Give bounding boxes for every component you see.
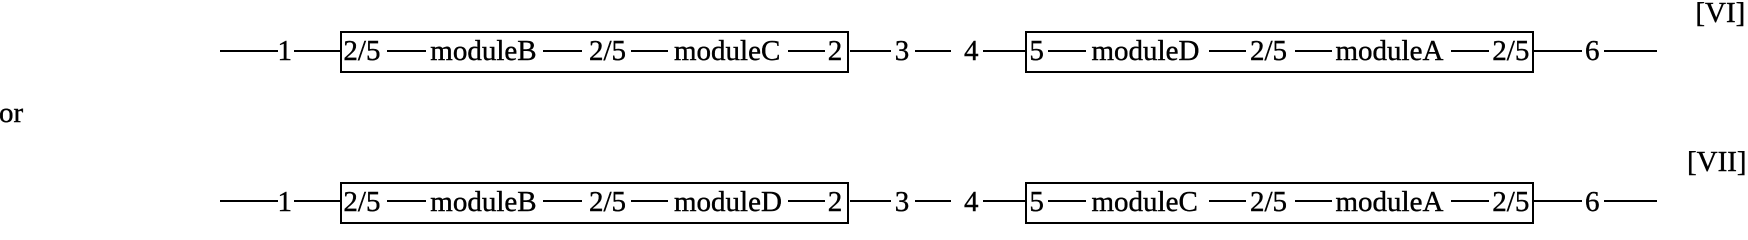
wire [1534, 200, 1582, 202]
link label 2/5 [1492, 188, 1529, 217]
node 4 [964, 188, 979, 217]
wire [788, 200, 825, 202]
wire [915, 50, 951, 52]
wire [1295, 50, 1332, 52]
module D block label [674, 188, 782, 217]
wire [915, 200, 951, 202]
wire [1048, 50, 1086, 52]
wire [1451, 50, 1489, 52]
link label 2/5 [343, 188, 380, 217]
module C block label [1092, 188, 1198, 217]
node 1 [278, 37, 293, 66]
wire [543, 50, 582, 52]
formula label [VI] [1695, 0, 1745, 28]
wire [1209, 50, 1247, 52]
link label 2/5 [343, 37, 380, 66]
wire [1295, 200, 1332, 202]
wire [1604, 50, 1658, 52]
wire [1209, 200, 1247, 202]
module B block label [430, 188, 536, 217]
wire [788, 50, 825, 52]
wire [1534, 50, 1582, 52]
first module box (formula VI) [340, 31, 849, 73]
connector "or" between formulas [0, 99, 23, 128]
wire [387, 200, 427, 202]
node 4 [964, 37, 979, 66]
second module box (formula VI) [1025, 31, 1535, 73]
wire [631, 200, 668, 202]
module A block label [1336, 37, 1444, 66]
wire [1604, 200, 1658, 202]
link label 2/5 [1250, 188, 1287, 217]
wire [220, 50, 278, 52]
wire [387, 50, 427, 52]
node 5 [1029, 37, 1044, 66]
wire [631, 50, 668, 52]
node 5 [1029, 188, 1044, 217]
second module box (formula VII) [1025, 182, 1535, 224]
node 6 [1585, 37, 1600, 66]
wire [983, 200, 1027, 202]
wire [1048, 200, 1086, 202]
wire [543, 200, 582, 202]
module D block label [1092, 37, 1200, 66]
wire [294, 200, 342, 202]
wire [1451, 200, 1489, 202]
node 3 [895, 188, 910, 217]
module A block label [1336, 188, 1444, 217]
module C block label [674, 37, 780, 66]
node 2 [828, 188, 843, 217]
wire [850, 50, 891, 52]
link label 2/5 [1492, 37, 1529, 66]
node 3 [895, 37, 910, 66]
node 2 [828, 37, 843, 66]
first module box (formula VII) [340, 182, 849, 224]
formula label [VII] [1687, 148, 1747, 177]
wire [983, 50, 1027, 52]
node 1 [278, 188, 293, 217]
wire [850, 200, 891, 202]
module B block label [430, 37, 536, 66]
link label 2/5 [589, 188, 626, 217]
wire [294, 50, 342, 52]
link label 2/5 [589, 37, 626, 66]
node 6 [1585, 188, 1600, 217]
link label 2/5 [1250, 37, 1287, 66]
wire [220, 200, 278, 202]
